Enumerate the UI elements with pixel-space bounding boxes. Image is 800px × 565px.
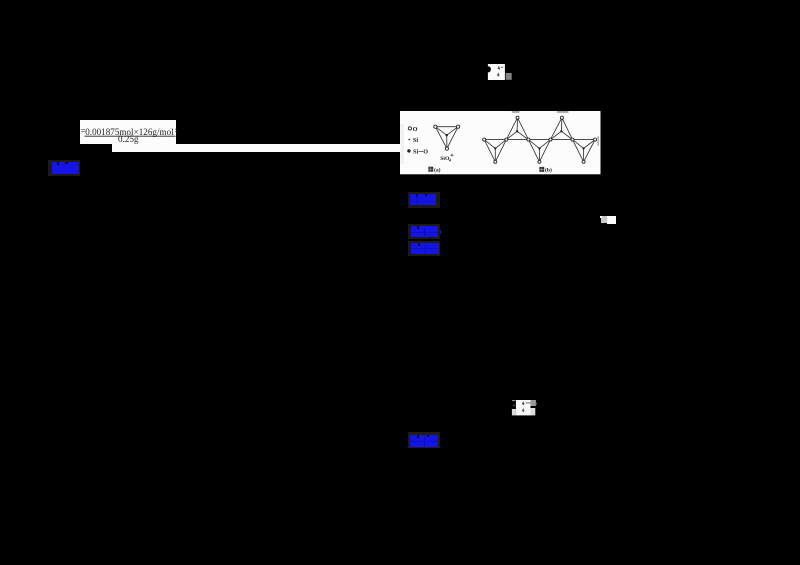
blue highlight box 3 [408,224,441,239]
blue highlight box 5 [408,432,440,448]
blue highlight box 1 (answer label) [48,160,80,176]
gray mark right edge [598,137,599,147]
svg-text:O: O [413,126,418,133]
tetrahedron (a) Si center [446,134,448,136]
equation fraction box: =0.001875mol×126g/mol / 0.25g [80,120,176,144]
faint left strip [401,124,405,164]
svg-text:0.25g: 0.25g [118,134,139,144]
legend: O circle [408,127,411,130]
blue highlight box 4 [408,241,441,256]
chain down-tetra 1 [484,140,506,162]
svg-text:O: O [423,149,428,156]
svg-text:Si: Si [413,137,418,144]
inline formula fragment SiO4(4-) top [485,62,515,82]
label 图(b) [539,167,544,172]
legend: Si dot [408,139,410,141]
diagram image: SiO4 tetrahedron 图(a) and chain 图(b) [400,111,601,175]
chain down-tetra 3 [573,140,596,162]
chain up-tetra 2 [550,118,572,140]
chain up-tetra 1 [506,118,528,140]
gray smudge above up-tetra 1 [512,111,520,113]
tetrahedron (a) O vertices [434,125,460,150]
gray smudge above up-tetra 2 [557,111,569,113]
equation white underhang bar [112,144,400,152]
inline formula fragment SiO4(4-) bottom [509,398,539,418]
small white/gray fragment right [601,216,608,223]
blue highlight box 2 [408,192,440,208]
svg-text:4-: 4- [451,153,455,158]
chain O circles baseline [483,117,597,164]
chain O circles bottom [494,161,497,164]
equation fraction content [80,120,178,146]
legend: filled circle Si-O [407,150,410,153]
svg-text:(a): (a) [434,167,441,174]
chain Si dots [494,131,585,150]
chain down-tetra 2 [528,140,550,162]
chain O circles top [516,117,519,120]
tetrahedron (a) edges [435,127,458,149]
svg-text:(b): (b) [545,167,552,174]
chain (b): baseline [484,139,595,141]
svg-text:Si: Si [413,149,418,156]
label 图(a) [428,167,433,172]
